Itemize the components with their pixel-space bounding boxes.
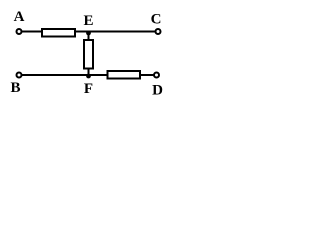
resistor R1 (A-E, horizontal) [42,29,75,37]
wire vertical E-F [88,32,90,76]
svg-text:C: C [151,12,162,28]
svg-text:D: D [152,83,163,99]
node F junction dot [86,74,91,79]
resistor R2 (E-F, vertical) [84,40,93,69]
terminal B [17,73,22,78]
wire top rail A-E-C [19,31,158,33]
svg-text:E: E [83,13,93,29]
wire bottom rail B-F-D [19,74,157,76]
terminal D [154,73,159,78]
node E junction dot [86,31,91,36]
svg-text:B: B [10,80,20,96]
resistor R3 (F-D, horizontal) [108,71,141,79]
terminal A [17,29,22,34]
svg-text:F: F [84,81,93,97]
svg-text:A: A [14,9,25,25]
terminal C [156,29,161,34]
